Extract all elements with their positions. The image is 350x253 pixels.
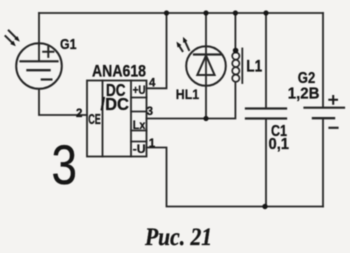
svg-text:3: 3 [52,133,78,196]
wire pin1 to bottom rail [147,148,324,207]
IC DA1 ANA618 DC/DC converter body [87,81,147,157]
battery G2 [305,13,345,207]
capacitor C1 [246,13,286,207]
svg-text:G2: G2 [298,70,315,87]
arrowhead G1 a [14,36,19,42]
svg-text:-U: -U [133,142,146,156]
light arrows out of HL1 [179,42,189,51]
svg-text:HL1: HL1 [176,86,200,102]
wire G1 bottom to pin 2 [39,89,87,115]
svg-text:Рис. 21: Рис. 21 [144,224,212,251]
LED HL1 [186,46,226,86]
svg-text:1: 1 [149,138,156,150]
solar photocell G1 [16,43,62,89]
arrowhead HL1 a [183,37,187,43]
node dot C1/top [263,10,268,15]
arrowhead HL1 b [177,42,182,48]
arrowhead G1 b [10,41,16,47]
battery plus sign [328,95,338,105]
wire pin3 run [147,83,236,119]
inductor L1 [232,13,242,83]
svg-text:0,1: 0,1 [269,136,290,153]
node dot C1/bottom [262,204,267,209]
light arrows into G1 [6,31,17,43]
wire G1 top drop [38,13,40,45]
node dot HL1/top [203,10,208,15]
node dot L1/top [233,10,238,15]
wire top rail [39,12,323,14]
svg-text:4: 4 [149,78,156,90]
svg-text:3: 3 [147,106,153,118]
svg-text:L1: L1 [246,57,262,76]
node dot L1 winding start [233,48,239,54]
svg-text:1,2В: 1,2В [288,86,320,103]
svg-text:Lx: Lx [133,118,146,132]
svg-text:+U: +U [133,83,146,97]
wire HL1 vertical [205,13,207,119]
svg-text:ANA618: ANA618 [92,61,146,80]
svg-text:2: 2 [76,108,82,120]
svg-text:G1: G1 [60,36,77,53]
svg-text:CE: CE [88,112,101,128]
node dot pin4/top [164,10,169,15]
node dot HL1/pin3 [203,116,208,121]
wire pin4 to top rail [147,13,167,88]
svg-text:/DC: /DC [101,94,130,114]
